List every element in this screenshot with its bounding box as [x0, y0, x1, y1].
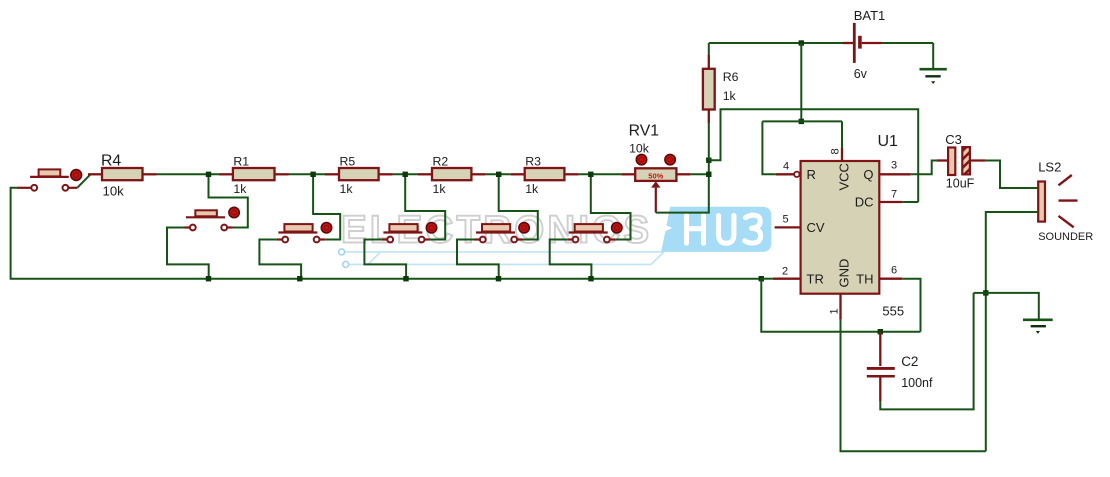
svg-text:BAT1: BAT1 [854, 8, 886, 23]
svg-text:555: 555 [882, 304, 904, 319]
svg-text:SOUNDER: SOUNDER [1038, 231, 1093, 243]
svg-text:50%: 50% [648, 171, 663, 180]
svg-text:Q: Q [863, 167, 873, 182]
svg-text:100nf: 100nf [901, 376, 933, 390]
svg-text:U1: U1 [878, 133, 899, 150]
svg-text:DC: DC [855, 195, 874, 210]
svg-text:R3: R3 [525, 154, 541, 168]
svg-text:6v: 6v [854, 67, 868, 81]
svg-text:7: 7 [891, 188, 897, 200]
svg-text:R: R [807, 167, 816, 182]
svg-text:CV: CV [807, 220, 825, 235]
svg-text:10k: 10k [103, 184, 125, 199]
svg-text:R4: R4 [101, 152, 121, 169]
svg-text:R2: R2 [433, 154, 449, 168]
svg-text:4: 4 [783, 160, 789, 172]
svg-text:VCC: VCC [837, 163, 852, 190]
svg-text:2: 2 [782, 265, 788, 277]
svg-text:1k: 1k [233, 182, 247, 196]
svg-text:5: 5 [782, 213, 788, 225]
svg-text:GND: GND [837, 259, 852, 288]
svg-text:TH: TH [856, 271, 873, 286]
svg-text:LS2: LS2 [1038, 160, 1061, 175]
svg-text:R5: R5 [340, 154, 356, 168]
svg-text:1k: 1k [340, 182, 354, 196]
svg-text:8: 8 [830, 148, 842, 154]
svg-text:1k: 1k [723, 89, 737, 103]
svg-text:6: 6 [891, 264, 897, 276]
svg-text:R6: R6 [723, 70, 739, 84]
svg-text:1k: 1k [525, 182, 539, 196]
svg-text:3: 3 [891, 159, 897, 171]
svg-text:C3: C3 [945, 132, 962, 147]
svg-text:1k: 1k [433, 182, 447, 196]
svg-text:RV1: RV1 [629, 122, 660, 139]
svg-text:C2: C2 [901, 354, 918, 369]
svg-text:10k: 10k [629, 142, 650, 156]
svg-text:R1: R1 [233, 154, 249, 168]
svg-text:10uF: 10uF [946, 177, 975, 191]
svg-text:TR: TR [807, 271, 824, 286]
svg-text:1: 1 [829, 308, 841, 314]
